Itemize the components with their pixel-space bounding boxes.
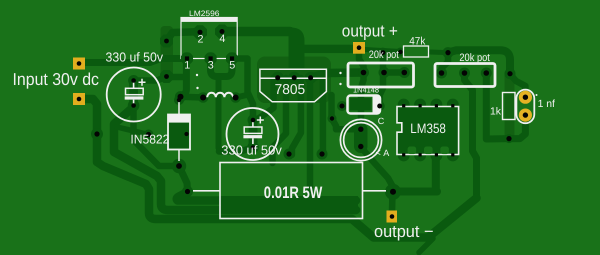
1nf yellow pad bottom: [519, 109, 532, 122]
bottom-layer vertical trace under 1k R4: [505, 72, 515, 139]
capacitor C2 leads: [252, 122, 254, 144]
orange pad input -: [73, 93, 85, 105]
wire 7805 pour verticals: [259, 78, 311, 197]
via row right: [317, 149, 328, 160]
via V1: [160, 35, 173, 48]
wire 7805 pour to diode D4 top pad: [332, 95, 361, 129]
U3 interior pad clearances: [408, 147, 449, 155]
LM2596 U1 pad 1 (octagon): [181, 52, 193, 64]
svg-text:LM2596: LM2596: [189, 9, 220, 18]
wire 47k right lead: [430, 50, 448, 56]
capacitor C2 circle: [227, 108, 279, 160]
via at diode right edge: [182, 130, 190, 138]
resistor R1 47k box: [404, 46, 429, 57]
capacitor C2 plus sign: [257, 117, 264, 124]
svg-text:0.01R 5W: 0.01R 5W: [264, 183, 323, 202]
7805 pads: [272, 72, 284, 84]
inductor L1 coil: [207, 93, 233, 98]
op-amp U3 LM358 body (dark fill, notch): [397, 107, 459, 155]
svg-text:IN5822: IN5822: [130, 133, 169, 147]
wire via to 1nf top pad: [510, 74, 525, 97]
wire band to output+ pad: [298, 45, 355, 53]
1nf yellow pad top: [519, 91, 532, 104]
via near 1k top: [505, 68, 516, 79]
wire valley tail: [419, 239, 433, 253]
shunt R5 0.01R box: [220, 163, 363, 219]
wire inductor L1 right pad junction: [236, 95, 247, 98]
svg-text:<: <: [376, 148, 381, 158]
via V3 near IN5822 text: [144, 130, 154, 140]
wire interior band under shunt resistor: [221, 196, 358, 208]
via near 1k bottom: [505, 134, 514, 143]
cap C2 bottom pad: [247, 142, 259, 154]
LM2596 U1 pad 5: [226, 52, 238, 64]
wire via V2 to pin1 column: [172, 74, 184, 81]
wire inductor left pads link: [181, 93, 203, 100]
diode D3 1N4148 left pad: [337, 101, 347, 111]
svg-text:3: 3: [208, 59, 214, 71]
wire cap C1 bottom to diode D1 bottom pad: [134, 107, 180, 166]
wire LM2596 pin1 down to pad: [181, 60, 187, 97]
svg-text:47k: 47k: [409, 35, 426, 47]
shunt R5 right pad: [385, 184, 401, 200]
wire 47k via to pot P2 pad1: [442, 53, 449, 73]
wire diode D4 bottom pad to shunt right pad: [361, 147, 393, 187]
wire 1nf bottom pad to via: [509, 115, 525, 139]
via on 20k pot text: [378, 48, 388, 58]
bottom-layer vertical trace at LM2596 via column: [161, 26, 174, 80]
wire input- pad to output- valley (ground return): [79, 99, 477, 238]
via on D4 feeder: [328, 114, 337, 123]
wire pot P1 pad2 to diode D3 right pad: [380, 73, 383, 105]
diode D1 top pad: [174, 95, 184, 105]
svg-text:A: A: [383, 148, 389, 158]
LM2596 U1 pad 4 (octagon): [215, 25, 229, 39]
inductor L1 right pad: [230, 92, 241, 103]
wire output+ pad down to pot P1 pad1: [359, 49, 364, 73]
via V2: [160, 70, 173, 83]
wire cap C1 top pad to via V2: [134, 77, 167, 81]
orange pad output +: [353, 42, 365, 54]
via V4 input- branch: [91, 128, 103, 140]
pot P2 pads: [436, 68, 447, 79]
capacitor C1 plus sign: [139, 79, 146, 86]
wire input+ pad to LM2596 pin1: [82, 59, 189, 63]
47k R1 right via: [443, 47, 454, 58]
wire elbow down (wide): [287, 28, 305, 69]
svg-text:20k pot: 20k pot: [369, 49, 399, 61]
trace between C2 pads: [249, 122, 258, 147]
pot P2 20k box: [435, 64, 495, 87]
capacitor C1 leads: [133, 83, 135, 104]
LM2596 U1 pad 3: [204, 52, 216, 64]
wire via row to 7805 pour S1: [292, 78, 301, 155]
capacitor C2 symbol plates: [244, 127, 262, 133]
diode D4 inner circle: [344, 123, 379, 158]
resistor R4 1k box: [503, 93, 516, 120]
pot P1 pads: [358, 67, 369, 78]
cap C1 top pad: [128, 75, 139, 86]
wire pot P2 pad2 down right side of LM358: [465, 73, 477, 198]
diode D4 pads pill: [354, 123, 368, 154]
wire LM2596 pin5 to cap C2 top: [236, 59, 253, 117]
wire 7805 pad3 to pot P1 pad1: [311, 73, 362, 78]
LM358 U3 bottom pads: [398, 150, 410, 162]
svg-text:1N4148: 1N4148: [353, 86, 380, 95]
LM2596 U1 pad 2 (octagon): [193, 25, 207, 39]
U1 top bar: [181, 18, 237, 22]
wire shunt right pad to output- pad: [389, 192, 396, 212]
wire branch to via V3: [117, 127, 149, 135]
orange pad input +: [73, 58, 85, 70]
drill holes: [77, 61, 82, 66]
cap C2 top pad: [248, 115, 259, 126]
diode D1 cathode band: [168, 115, 190, 123]
svg-text:1: 1: [184, 59, 190, 71]
diode D3 1N4148 right pad: [375, 101, 385, 111]
wire pins3-5 branch down through coil: [219, 77, 222, 152]
svg-text:20k pot: 20k pot: [459, 52, 490, 64]
diode D4 outer circle: [340, 119, 381, 160]
wire 47k right via to via near 1k: [448, 50, 510, 73]
wire shunt left pad to inner band under shunt: [177, 192, 356, 201]
silk dot near 1nf: [536, 94, 538, 96]
diode D1 leads: [178, 102, 180, 161]
svg-text:2: 2: [198, 34, 204, 46]
svg-text:4: 4: [219, 33, 225, 45]
U1 pins 1,3,5 pads over outline: [181, 53, 238, 65]
inductor L1 outer pad: [175, 91, 186, 102]
svg-text:1k: 1k: [490, 106, 502, 117]
via row left: [284, 149, 295, 160]
wire via to pot P1 pad2: [380, 53, 387, 73]
wire pot P2 pad3 down to 1nf bottom net: [486, 73, 509, 139]
capacitor C1 circle: [107, 68, 161, 122]
wire cap C1 bottom outer ground branch: [114, 107, 356, 210]
copper under diode D1 body: [169, 116, 189, 149]
cap C1 bottom pad: [128, 100, 140, 112]
capacitor C1 symbol plates: [126, 88, 144, 94]
svg-text:C: C: [378, 116, 385, 126]
copper under diode D3 body: [350, 98, 372, 111]
svg-text:330 uf 50v: 330 uf 50v: [106, 50, 164, 65]
diode D3 cathode band: [373, 96, 380, 113]
wire LM2596 pin4 to elbow: [224, 27, 290, 37]
U2 inner line: [260, 77, 327, 79]
shunt R5 leads: [193, 190, 386, 192]
regulator U2 7805 outline: [260, 69, 327, 102]
trace between C1 pads: [129, 82, 138, 104]
silk dots near pot P1: [339, 72, 341, 74]
wire LM2596 pins 3-5 U-link: [211, 60, 233, 77]
wire via row to 7805 pour S2: [320, 78, 327, 155]
svg-text:LM358: LM358: [410, 121, 446, 136]
orange pad output -: [387, 211, 398, 223]
wire output+ pad to 47k R1 left: [365, 50, 401, 52]
silk dots near inductor: [196, 74, 198, 76]
svg-text:330 uf 50v: 330 uf 50v: [221, 143, 282, 158]
shunt R5 left pad: [182, 186, 193, 197]
svg-text:Input 30v dc: Input 30v dc: [13, 69, 100, 89]
wire shunt top stub S4: [273, 78, 287, 163]
diode D1 IN5822 body: [168, 115, 190, 150]
svg-text:5: 5: [229, 59, 235, 71]
LM358 U3 top pads: [398, 99, 410, 111]
wire pot P1 pad1 down to diode D4 top pad: [361, 73, 364, 130]
svg-text:7805: 7805: [275, 82, 306, 98]
capacitor C3 1nf stadium: [516, 90, 534, 124]
diode D1 bottom pad: [172, 159, 186, 173]
diode D3 1N4148 body: [348, 96, 381, 114]
wire diode D1 bottom pad to shunt left pad: [179, 166, 188, 191]
wire LM358 pin to shunt right pad: [393, 155, 437, 192]
svg-text:output +: output +: [342, 22, 398, 41]
pot P1 20k box: [348, 63, 414, 87]
regulator U1 LM2596 outline: [181, 18, 237, 59]
svg-text:output −: output −: [374, 222, 434, 241]
inductor L1 left pad: [198, 92, 209, 103]
wire cap C2 bottom pad left stub: [219, 148, 253, 152]
wire via V1 to LM2596 pin2: [167, 32, 199, 41]
svg-text:1 nf: 1 nf: [538, 99, 555, 110]
bottom-layer pour under 7805 U2: [257, 57, 331, 104]
47k R1 left pad: [396, 48, 405, 57]
wire pot P1 pads2-3 link: [384, 69, 404, 76]
